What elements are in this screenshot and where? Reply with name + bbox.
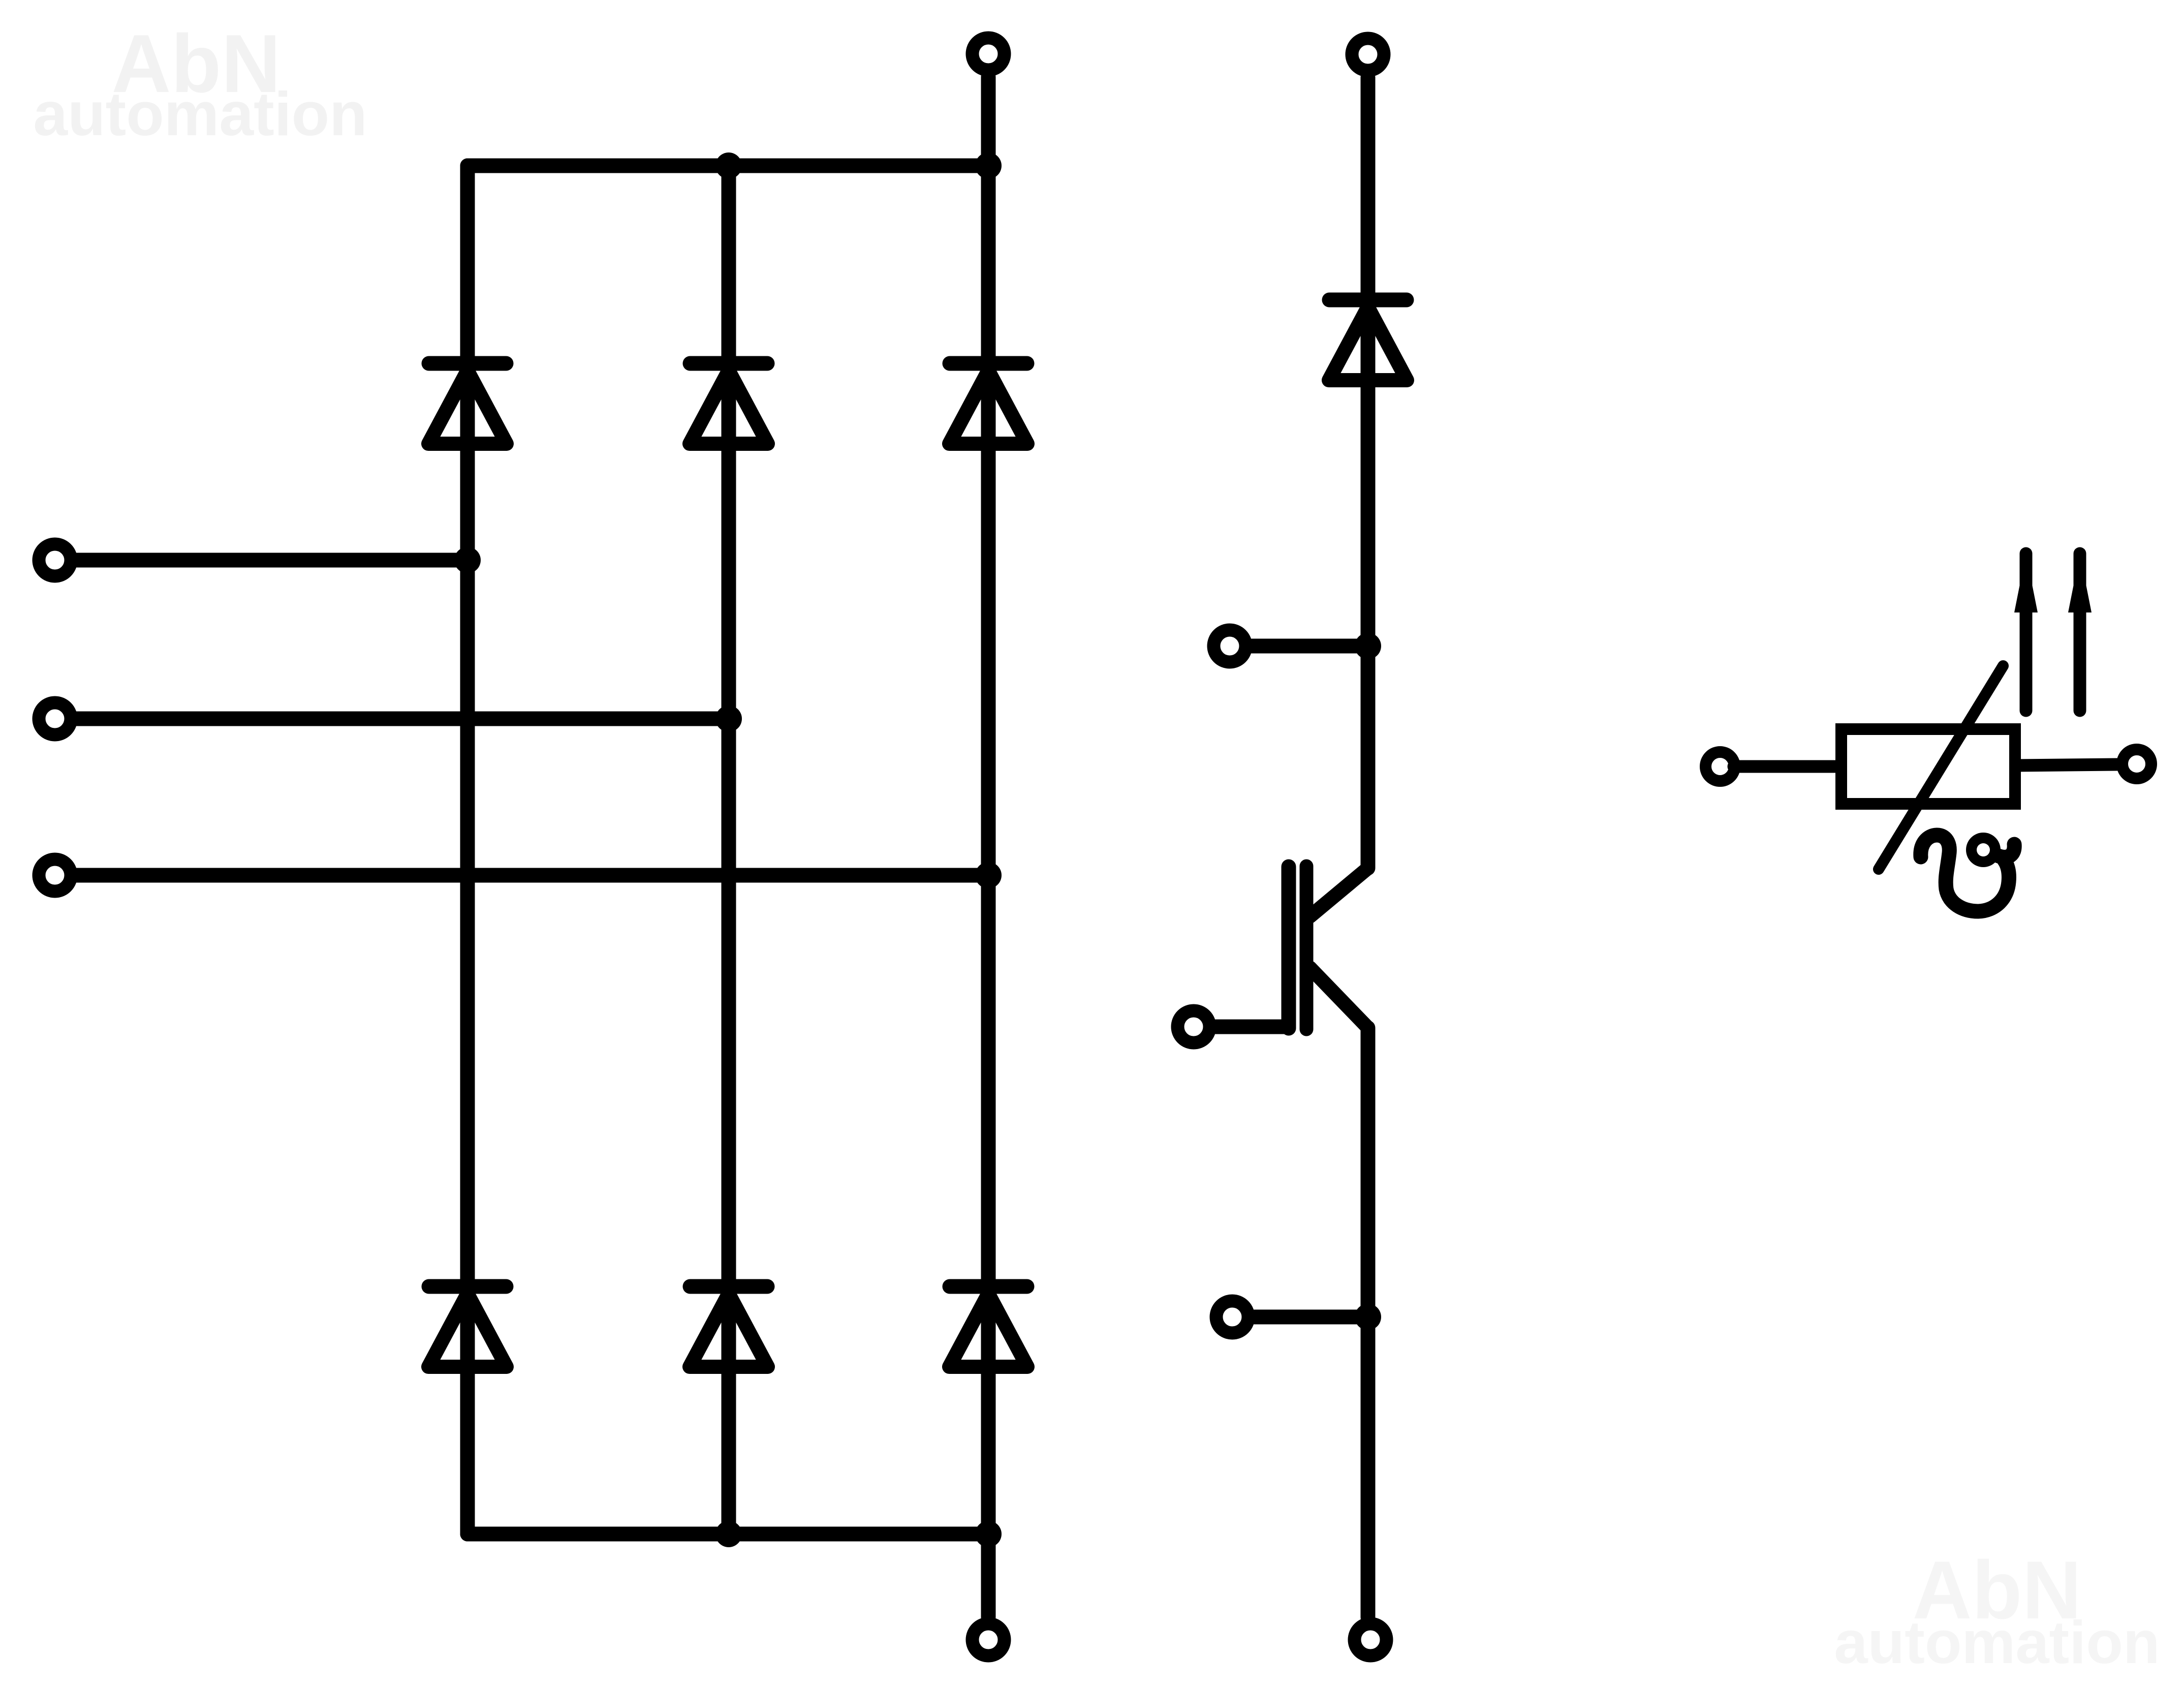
junction L1 / branch 1 bbox=[454, 547, 481, 573]
wire emitter tap bbox=[1254, 1310, 1368, 1325]
junction emitter tap bbox=[1355, 1304, 1381, 1330]
terminal DC+ bbox=[973, 38, 1005, 70]
thermistor R1 body bbox=[1842, 729, 2015, 804]
thermistor R1 leads bbox=[1734, 764, 2117, 766]
junction top bus / branch 2 bbox=[715, 152, 742, 179]
junction L3 / branch 3 bbox=[975, 862, 1002, 888]
svg-text:automation: automation bbox=[33, 79, 367, 148]
junction bottom bus / branch 3 bbox=[975, 1521, 1002, 1547]
terminal chopper bottom bbox=[1355, 1624, 1387, 1656]
diode D2 bbox=[690, 363, 768, 444]
diode D6 bbox=[949, 1286, 1027, 1367]
wire gate lead bbox=[1215, 1020, 1289, 1034]
wire collector tap bbox=[1252, 639, 1368, 654]
wire chopper emitter bottom bbox=[1361, 1028, 1376, 1617]
terminal AC L2 bbox=[39, 703, 71, 735]
diode D3 bbox=[949, 363, 1027, 444]
terminal gate bbox=[1178, 1011, 1210, 1043]
junction L2 / branch 2 bbox=[715, 706, 742, 732]
diode D7 chopper freewheel bbox=[1329, 300, 1407, 380]
watermark bottom-right "AbN automation" bbox=[1834, 1544, 2160, 1676]
wire AC input L1 bbox=[76, 553, 467, 568]
arrow up 1 bbox=[2014, 554, 2038, 711]
terminal collector tap bbox=[1214, 630, 1246, 662]
junction bottom bus / branch 2 bbox=[715, 1521, 742, 1547]
wire AC input L3 bbox=[76, 868, 988, 883]
diode D5 bbox=[690, 1286, 768, 1367]
wire branch 2 vertical bbox=[722, 166, 736, 1534]
wire branch 1 vertical bbox=[460, 166, 475, 1534]
wire bottom DC- bus bbox=[467, 1527, 988, 1542]
wire chopper collector top bbox=[1361, 77, 1376, 868]
diode D1 bbox=[428, 363, 507, 444]
wire DC- stem bbox=[981, 1534, 996, 1617]
arrow up 2 bbox=[2068, 554, 2092, 711]
theta symbol bbox=[1921, 835, 2014, 911]
junction collector tap bbox=[1355, 633, 1381, 659]
wire AC input L2 bbox=[76, 712, 729, 726]
terminal AC L3 bbox=[39, 860, 71, 892]
terminal emitter tap bbox=[1216, 1301, 1249, 1333]
junction top bus / branch 3 bbox=[975, 152, 1002, 179]
transistor Q1 IGBT bbox=[1289, 866, 1368, 1029]
terminal thermistor left bbox=[1706, 752, 1735, 781]
thermistor slash bbox=[1879, 666, 2003, 869]
terminal DC- bbox=[973, 1624, 1005, 1656]
terminal AC L1 bbox=[39, 544, 71, 576]
wire top DC+ bus bbox=[467, 159, 988, 173]
terminal chopper top bbox=[1352, 39, 1384, 71]
svg-text:automation: automation bbox=[1834, 1609, 2160, 1676]
diode D4 bbox=[428, 1286, 507, 1367]
wire branch 3 vertical bbox=[981, 77, 996, 1534]
watermark top-left "AbN automation" bbox=[33, 18, 367, 148]
terminal thermistor right bbox=[2123, 750, 2151, 779]
